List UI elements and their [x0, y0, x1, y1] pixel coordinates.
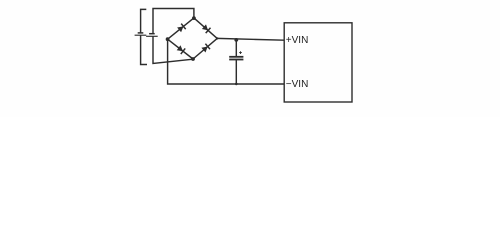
capacitor C1 top lead wire — [235, 40, 237, 56]
node AC1 junction dot (bridge bottom corner) — [191, 57, 195, 61]
battery cell BT1 bottom stub wire — [141, 35, 147, 64]
diode D1 (bridge left-top) — [168, 18, 194, 39]
battery cell BT2 top wire to node AC2 — [153, 9, 194, 34]
battery cell BT1 short plate — [138, 32, 144, 34]
diode D4 (bridge bottom-right) — [193, 38, 217, 59]
battery cell BT2 short plate — [149, 33, 155, 35]
capacitor C1 polarity plus mark — [239, 51, 242, 54]
junction bridge right corner — [216, 37, 218, 39]
capacitor C1 bottom lead wire — [235, 60, 237, 84]
junction capacitor bottom on -VIN rail — [235, 83, 238, 86]
battery cell BT1 long plate — [135, 34, 147, 36]
node AC2 junction dot (bridge top corner) — [192, 16, 196, 20]
converter module U1 box — [284, 23, 352, 102]
diode D3 (bridge left-bottom) — [168, 39, 193, 59]
battery cell BT1 top stub wire — [141, 9, 147, 33]
wire BT2 bottom to bridge node AC1 — [153, 36, 193, 63]
node DC+ junction dot (capacitor tap) — [234, 38, 238, 42]
svg-text:+VIN: +VIN — [286, 35, 309, 46]
wire bridge node DC- down and along bottom to -VIN — [168, 39, 285, 84]
wire bridge node DC+ to +VIN rail — [217, 38, 284, 40]
node DC- junction dot (bridge left corner) — [166, 37, 170, 41]
diode D2 (bridge top-right) — [194, 18, 217, 39]
capacitor C1 plates — [229, 57, 243, 60]
battery cell BT2 long plate — [146, 35, 158, 37]
svg-text:−VIN: −VIN — [286, 79, 309, 90]
